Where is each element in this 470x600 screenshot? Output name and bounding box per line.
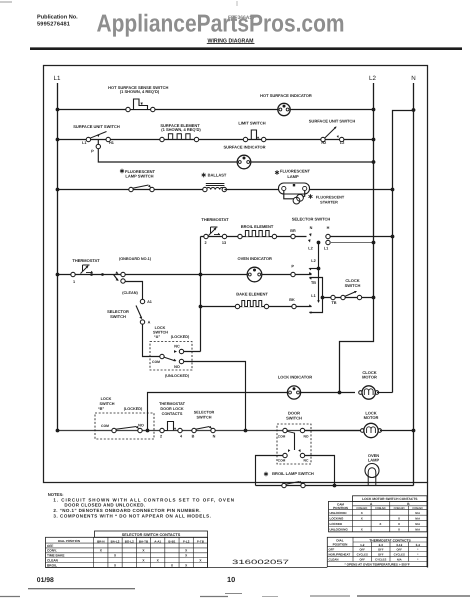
- svg-text:(1 SHOWN, 4 REQ'D): (1 SHOWN, 4 REQ'D): [120, 89, 160, 94]
- lock motor: [361, 429, 365, 433]
- wire NC up: [184, 351, 201, 353]
- thermostat 2: [206, 226, 224, 235]
- svg-text:POSITION: POSITION: [333, 543, 349, 547]
- fluorescent lamp switch: [129, 187, 133, 191]
- fluorescent lamp: [279, 183, 310, 194]
- fluorescent lamp label: [276, 170, 278, 175]
- svg-text:TIME BAKE: TIME BAKE: [47, 554, 65, 558]
- door switch bottom contacts: [288, 449, 290, 452]
- svg-text:10: 10: [227, 575, 235, 584]
- lamp surface indicator: [237, 155, 251, 169]
- wire main row: [58, 274, 312, 276]
- wire row3: [58, 189, 207, 191]
- wire broil to N feeder: [330, 236, 393, 238]
- broil lamp switch label: [265, 472, 267, 477]
- svg-text:2: 2: [204, 241, 206, 245]
- svg-text:B: B: [192, 435, 195, 439]
- svg-text:DIAL POSITION: DIAL POSITION: [58, 539, 80, 543]
- ballast label: [203, 173, 205, 178]
- wire to clock motor: [301, 392, 356, 394]
- svg-text:N: N: [310, 226, 313, 230]
- svg-text:“B”: “B”: [98, 407, 105, 411]
- wire surface indicator to L2: [251, 161, 374, 163]
- svg-text:OFF: OFF: [396, 547, 402, 551]
- svg-text:TB: TB: [331, 301, 336, 305]
- svg-text:“A”: “A”: [154, 335, 161, 339]
- svg-text:SWITCH: SWITCH: [110, 314, 126, 319]
- door switch box: [277, 424, 311, 464]
- svg-text:LOCK INDICATOR: LOCK INDICATOR: [278, 375, 312, 380]
- svg-text:N/A: N/A: [397, 557, 402, 561]
- wire row1: [58, 109, 279, 111]
- svg-text:L1: L1: [82, 141, 86, 145]
- fluorescent starter label: [310, 194, 312, 199]
- svg-text:A1: A1: [147, 300, 152, 304]
- svg-text:N/A: N/A: [415, 528, 420, 532]
- hot surface sensor switch: [130, 98, 150, 109]
- selector contacts row2: [308, 239, 311, 242]
- svg-text:N/A: N/A: [415, 522, 420, 526]
- svg-text:UNLOCKING: UNLOCKING: [330, 528, 349, 532]
- wire row2: [58, 139, 374, 141]
- svg-text:X: X: [398, 522, 400, 526]
- svg-text:LAMP: LAMP: [368, 457, 380, 462]
- svg-text:P-L2: P-L2: [183, 539, 190, 543]
- oven lamp: [365, 464, 379, 478]
- svg-text:OFF: OFF: [378, 547, 384, 551]
- svg-text:(UNLOCKED): (UNLOCKED): [165, 374, 190, 378]
- svg-text:OVEN INDICATOR: OVEN INDICATOR: [238, 256, 272, 261]
- wire A down to lock A: [143, 324, 160, 357]
- surface unit switch 2: [322, 127, 344, 138]
- svg-text:2. “NO.1” DENOTES ONBOARD CON: 2. “NO.1” DENOTES ONBOARD CONNECTOR PIN …: [53, 508, 200, 513]
- svg-text:OFF: OFF: [359, 547, 365, 551]
- selector ladder TB leg: [310, 278, 323, 313]
- svg-text:THERMOSTAT: THERMOSTAT: [72, 258, 100, 263]
- svg-text:NO: NO: [303, 435, 308, 439]
- svg-text:NO: NO: [174, 365, 180, 369]
- limit switch: [249, 129, 259, 138]
- wire door sw NC left drop: [256, 456, 284, 486]
- table connector line: [208, 567, 328, 569]
- svg-text:STARTER: STARTER: [320, 201, 338, 205]
- terminal P: [291, 272, 295, 276]
- svg-text:LIMIT SWITCH: LIMIT SWITCH: [238, 121, 265, 126]
- lock A COM: [160, 354, 164, 358]
- svg-text:LOCKED: LOCKED: [330, 522, 344, 526]
- wire lock motor to N: [380, 430, 414, 432]
- svg-text:FLUORESCENT: FLUORESCENT: [280, 169, 311, 174]
- lamp lock indicator: [287, 386, 300, 399]
- wire door sw right drop: [305, 456, 335, 486]
- lock switch B box: [95, 413, 154, 439]
- svg-text:SURFACE INDICATOR: SURFACE INDICATOR: [223, 145, 265, 150]
- ballast: [206, 187, 224, 189]
- wire lamp to N feeder: [310, 189, 393, 191]
- svg-text:BA-TB: BA-TB: [139, 539, 149, 543]
- svg-text:X: X: [361, 511, 363, 515]
- broil element: [242, 231, 273, 237]
- selector switch contacts table: [95, 531, 208, 537]
- surface unit switch: [86, 130, 108, 138]
- wire N bus: [413, 83, 415, 486]
- svg-text:(ONBOARD NO.1): (ONBOARD NO.1): [119, 257, 152, 261]
- diagram border: [44, 66, 428, 483]
- svg-text:MOTOR: MOTOR: [362, 374, 377, 379]
- wire L2 step down: [340, 298, 374, 393]
- lock motor switch contacts table: [353, 496, 428, 502]
- terminal A1: [140, 299, 144, 303]
- svg-text:LOCKING: LOCKING: [330, 516, 344, 520]
- svg-text:X: X: [398, 516, 400, 520]
- svg-text:L1: L1: [324, 247, 328, 251]
- svg-text:BK: BK: [289, 298, 295, 302]
- svg-text:LAMP: LAMP: [287, 174, 299, 179]
- terminal A: [140, 320, 144, 324]
- svg-text:BAKE ELEMENT: BAKE ELEMENT: [236, 292, 268, 297]
- svg-text:DOOR CLOSED AND UNLOCKED.: DOOR CLOSED AND UNLOCKED.: [64, 503, 145, 508]
- svg-text:N: N: [411, 75, 415, 82]
- svg-text:SWITCH: SWITCH: [197, 416, 212, 420]
- svg-text:COM: COM: [278, 435, 286, 439]
- svg-text:L1: L1: [54, 75, 61, 82]
- svg-text:FLUORESCENT: FLUORESCENT: [316, 196, 345, 200]
- svg-text:316002057: 316002057: [232, 559, 290, 566]
- wire L2 bus: [373, 83, 375, 298]
- svg-text:SELECTOR: SELECTOR: [194, 411, 215, 415]
- thermostat: [78, 263, 96, 273]
- fluorescent starter: [293, 197, 300, 204]
- svg-text:SELECTOR SWITCH CONTACTS: SELECTOR SWITCH CONTACTS: [122, 533, 181, 537]
- svg-text:SELECTOR SWITCH: SELECTOR SWITCH: [292, 217, 331, 222]
- wire broil row: [201, 236, 307, 238]
- svg-text:THERMOSTAT: THERMOSTAT: [159, 402, 185, 406]
- svg-text:3. COMPONENTS WITH * DO NOT A: 3. COMPONENTS WITH * DO NOT APPEAR ON AL…: [53, 513, 211, 518]
- svg-text:1. CIRCUIT SHOWN WITH ALL CON: 1. CIRCUIT SHOWN WITH ALL CONTROLS SET T…: [53, 497, 235, 502]
- svg-text:NC: NC: [304, 459, 309, 463]
- wire lock motor feed: [305, 430, 362, 432]
- svg-text:LAMP SWITCH: LAMP SWITCH: [125, 174, 153, 179]
- svg-text:OFF: OFF: [359, 557, 365, 561]
- wire L1 bus: [57, 83, 59, 431]
- lock switch A box: [150, 342, 192, 371]
- broil lamp switch: [282, 483, 286, 487]
- svg-text:2: 2: [160, 435, 162, 439]
- svg-text:CLEAN: CLEAN: [329, 557, 339, 561]
- wire row1 to L2: [290, 109, 374, 111]
- svg-text:NOTES:: NOTES:: [48, 492, 64, 497]
- svg-text:N/A: N/A: [415, 511, 420, 515]
- clock motor: [359, 391, 363, 395]
- svg-text:NOR./PREHEAT: NOR./PREHEAT: [329, 552, 351, 556]
- svg-text:X: X: [361, 516, 363, 520]
- svg-text:(CLEAN): (CLEAN): [122, 291, 138, 295]
- bottom page-edge dashes: [0, 596, 20, 598]
- svg-text:DOOR LOCK: DOOR LOCK: [160, 407, 183, 411]
- selector contacts 430: [192, 428, 196, 432]
- svg-text:* OPENS AT OVEN TEMPERATURES: * OPENS AT OVEN TEMPERATURES > 550°F: [345, 563, 410, 567]
- svg-text:L2: L2: [308, 247, 312, 251]
- svg-text:TB: TB: [311, 281, 316, 285]
- wire lock A NO out: [184, 362, 246, 431]
- svg-text:MOTOR: MOTOR: [364, 415, 379, 420]
- svg-text:CONTACTS: CONTACTS: [162, 412, 183, 416]
- wire N feeder: [393, 111, 414, 393]
- svg-text:13: 13: [222, 241, 226, 245]
- svg-text:BROIL ELEMENT: BROIL ELEMENT: [241, 224, 274, 229]
- svg-text:CYCLES: CYCLES: [357, 552, 368, 556]
- main row arrow to ladder: [309, 272, 312, 275]
- lamp oven indicator: [247, 267, 262, 282]
- svg-text:BR-N: BR-N: [97, 539, 105, 543]
- svg-text:COM: COM: [278, 459, 286, 463]
- svg-text:BALLAST: BALLAST: [208, 173, 227, 178]
- svg-text:OFF: OFF: [329, 547, 335, 551]
- svg-text:P: P: [91, 149, 94, 154]
- svg-text:BROIL LAMP SWITCH: BROIL LAMP SWITCH: [272, 471, 314, 476]
- svg-text:SWITCH: SWITCH: [100, 402, 115, 406]
- wire ballast to lamp: [224, 189, 278, 191]
- svg-text:(LOCKED): (LOCKED): [124, 407, 143, 411]
- svg-text:OFF: OFF: [378, 552, 384, 556]
- thermostat contacts table: [327, 537, 427, 566]
- svg-text:THERMOSTAT: THERMOSTAT: [201, 217, 229, 222]
- svg-text:H: H: [327, 226, 330, 230]
- svg-text:SURFACE UNIT SWITCH: SURFACE UNIT SWITCH: [73, 124, 120, 129]
- right border extension: [427, 483, 429, 568]
- svg-text:CYCLES: CYCLES: [394, 552, 405, 556]
- door switch center link: [294, 433, 296, 450]
- selector arm A: [136, 306, 142, 319]
- svg-text:LOCK MOTOR SWITCH CONTACTS: LOCK MOTOR SWITCH CONTACTS: [362, 497, 418, 501]
- svg-text:01/98: 01/98: [37, 577, 54, 584]
- wire row2sel to L2: [330, 242, 374, 244]
- svg-text:B-B1: B-B1: [168, 539, 175, 543]
- onboard connector: [115, 271, 118, 274]
- svg-text:H1: H1: [109, 141, 114, 145]
- svg-text:X: X: [398, 528, 400, 532]
- bake element: [238, 299, 266, 307]
- svg-text:SWITCH: SWITCH: [286, 416, 302, 421]
- svg-text:CONV.: CONV.: [47, 549, 57, 553]
- svg-text:COM: COM: [152, 360, 160, 364]
- surface element: [163, 133, 195, 139]
- wire bake row: [201, 306, 312, 308]
- svg-text:AppliancePartsPros.com: AppliancePartsPros.com: [97, 11, 345, 38]
- svg-text:P-TB: P-TB: [197, 539, 205, 543]
- svg-text:L2: L2: [340, 141, 344, 145]
- connector lower branch: [114, 275, 119, 281]
- page number underline: [225, 593, 242, 595]
- svg-text:SURFACE UNIT SWITCH: SURFACE UNIT SWITCH: [309, 119, 356, 124]
- wire to selector A1: [125, 282, 143, 300]
- fluorescent starter wires: [284, 191, 294, 199]
- svg-text:A-A1: A-A1: [154, 539, 161, 543]
- selector ladder: [318, 243, 320, 302]
- door switch top contacts: [283, 428, 287, 432]
- fluorescent lamp switch label: [121, 169, 123, 174]
- svg-text:L2: L2: [311, 259, 315, 263]
- svg-text:HOT SURFACE INDICATOR: HOT SURFACE INDICATOR: [260, 93, 312, 98]
- svg-text:A: A: [148, 321, 151, 325]
- svg-text:UNLOCKED: UNLOCKED: [330, 511, 348, 515]
- svg-text:N/A: N/A: [415, 516, 420, 520]
- wire clock motor to N feeder: [377, 392, 393, 394]
- svg-text:SWITCH: SWITCH: [345, 283, 361, 288]
- svg-text:BA-L2: BA-L2: [111, 539, 120, 543]
- svg-text:NO: NO: [138, 424, 144, 428]
- svg-text:LOCK: LOCK: [101, 397, 112, 401]
- svg-text:BR: BR: [290, 229, 296, 233]
- svg-text:H2: H2: [321, 141, 326, 145]
- wire P branch: [98, 140, 237, 163]
- svg-text:BROIL: BROIL: [47, 563, 57, 567]
- svg-text:(1 SHOWN, 4 REQ'D): (1 SHOWN, 4 REQ'D): [161, 127, 201, 132]
- svg-text:X: X: [379, 522, 381, 526]
- svg-text:CLEAN: CLEAN: [47, 558, 59, 562]
- wire row 430: [58, 430, 363, 432]
- svg-text:X: X: [361, 528, 363, 532]
- svg-text:NC: NC: [174, 345, 180, 349]
- selector contacts broil: [309, 233, 312, 236]
- svg-text:BO-L2: BO-L2: [125, 539, 134, 543]
- footer date underline: [28, 588, 135, 590]
- svg-text:L2: L2: [369, 75, 376, 82]
- svg-text:L1: L1: [311, 294, 315, 298]
- wire broil-thermostat drop: [200, 237, 202, 352]
- svg-text:SWITCH: SWITCH: [153, 330, 168, 334]
- svg-text:5995276481: 5995276481: [37, 22, 70, 28]
- svg-text:OFF: OFF: [47, 544, 53, 548]
- wire clock switch row: [323, 297, 374, 299]
- svg-text:CYCLES: CYCLES: [375, 557, 386, 561]
- svg-text:N: N: [213, 435, 216, 439]
- oven lamp row: [256, 485, 414, 487]
- svg-text:1: 1: [73, 280, 75, 284]
- svg-text:Publication No.: Publication No.: [37, 14, 78, 21]
- lock A arm: [164, 357, 176, 361]
- lamp hot surface indicator: [278, 103, 290, 115]
- clock switch: [331, 295, 335, 299]
- wire lock indicator row: [148, 393, 288, 431]
- svg-text:(LOCKED): (LOCKED): [171, 335, 190, 339]
- svg-text:COM: COM: [101, 424, 109, 428]
- thermostat door lock contacts: [165, 420, 178, 430]
